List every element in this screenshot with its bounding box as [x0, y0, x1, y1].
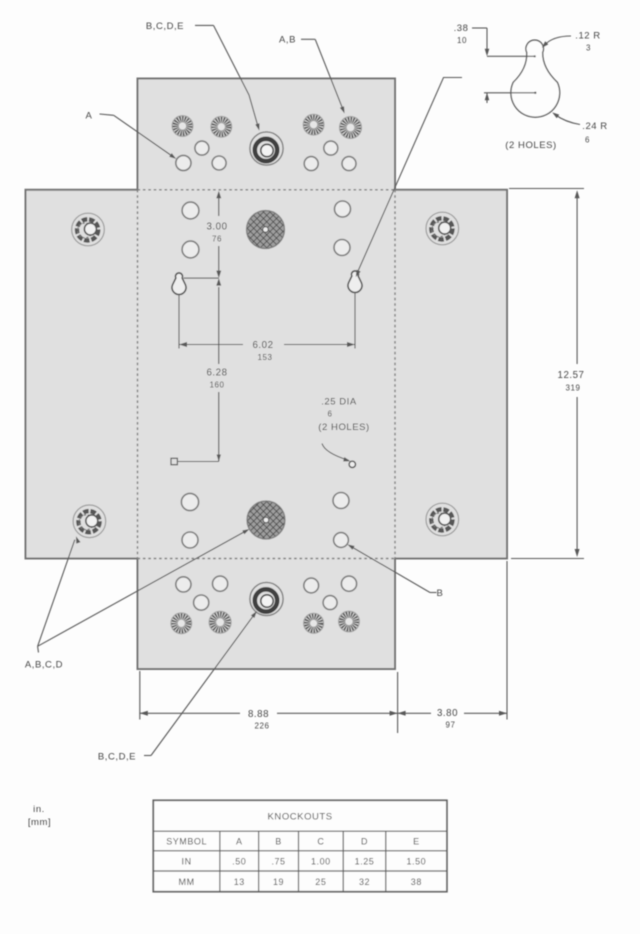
- .25 DIA small hole: [349, 461, 355, 467]
- table row line 3: [153, 870, 447, 872]
- big centre knockout top (B,C,D,E target): [250, 132, 283, 165]
- small hole bottom cluster 3: [194, 595, 209, 610]
- vertical plate visible outline: [138, 79, 396, 670]
- svg-text:97: 97: [446, 721, 456, 730]
- big centre knockout bottom (B,C,D,E target): [250, 582, 283, 615]
- svg-text:10: 10: [457, 36, 467, 45]
- small hole top cluster 6: [342, 157, 356, 171]
- hatched circle lower (A,B,C,D target): [247, 501, 285, 539]
- corner knockout bottom-left: [73, 505, 106, 538]
- svg-text:.12 R: .12 R: [575, 31, 600, 42]
- small hole bottom cluster 6: [323, 596, 337, 610]
- table row line 1: [153, 830, 447, 832]
- small hole top cluster 4: [324, 141, 338, 155]
- svg-text:D: D: [361, 837, 368, 847]
- small hole top cluster 1: [195, 141, 209, 155]
- svg-text:B: B: [275, 837, 282, 847]
- svg-text:8.88: 8.88: [248, 709, 269, 720]
- hidden edge: horizontal plate top behind vertical plate: [138, 189, 396, 191]
- datum square + line at bottom of 6.28: [171, 458, 177, 464]
- svg-text:(2 HOLES): (2 HOLES): [318, 422, 369, 433]
- 8.88 dimension bottom: [139, 671, 141, 720]
- small hole bottom cluster 1: [176, 577, 191, 592]
- knockouts table frame: [153, 800, 447, 891]
- horizontal plate body: [26, 190, 508, 559]
- svg-text:A,B: A,B: [279, 35, 296, 46]
- svg-text:C: C: [317, 837, 324, 847]
- svg-text:B: B: [437, 588, 444, 599]
- svg-text:A: A: [86, 111, 93, 122]
- svg-text:38: 38: [411, 877, 422, 887]
- .38 dimension of detail: [472, 27, 487, 29]
- connector keyhole to centre line: [184, 277, 219, 279]
- svg-text:1.00: 1.00: [311, 857, 331, 867]
- hex hole lower right 1: [333, 493, 349, 509]
- svg-text:6.02: 6.02: [252, 340, 273, 351]
- svg-text:.25 DIA: .25 DIA: [321, 397, 357, 408]
- knockout ring bottom row 3: [304, 613, 324, 633]
- knockout ring top row 2: [211, 116, 232, 137]
- hex hole upper right 1: [335, 201, 351, 217]
- svg-text:.38: .38: [454, 23, 469, 34]
- svg-text:319: 319: [566, 384, 581, 393]
- 12.57 dimension right side: [509, 188, 584, 190]
- svg-text:A: A: [236, 837, 243, 847]
- svg-text:.50: .50: [232, 857, 246, 867]
- svg-text:.75: .75: [271, 857, 285, 867]
- svg-text:13: 13: [234, 877, 245, 887]
- hidden edge: horizontal plate bottom behind vertical plate: [138, 558, 396, 560]
- small hole bottom cluster 2: [213, 576, 228, 591]
- table column line 5: [385, 831, 387, 892]
- knockout ring bottom row 2: [209, 611, 231, 633]
- leader to .25 hole: [322, 444, 349, 461]
- 3.80 dimension bottom right: [506, 561, 508, 720]
- 6.02 dimension between keyholes: [178, 295, 180, 349]
- knockout ring top row 3: [303, 114, 324, 135]
- svg-text:6: 6: [328, 410, 333, 419]
- svg-text:KNOCKOUTS: KNOCKOUTS: [268, 812, 333, 823]
- svg-text:E: E: [413, 837, 420, 847]
- svg-text:12.57: 12.57: [558, 370, 585, 381]
- svg-text:6: 6: [585, 136, 590, 145]
- svg-text:.24 R: .24 R: [582, 121, 607, 132]
- svg-text:3.00: 3.00: [206, 222, 227, 233]
- svg-text:19: 19: [273, 877, 284, 887]
- keyhole detail centre marks: [534, 92, 536, 94]
- svg-text:1.25: 1.25: [355, 857, 375, 867]
- svg-text:SYMBOL: SYMBOL: [166, 837, 207, 847]
- table column line 2: [258, 831, 260, 892]
- svg-text:B,C,D,E: B,C,D,E: [146, 21, 184, 32]
- small hole bottom cluster 4: [304, 578, 319, 593]
- svg-text:25: 25: [315, 877, 326, 887]
- hidden edge: vertical plate left inside horizontal plate: [137, 190, 139, 559]
- keyhole hole right: [348, 271, 362, 293]
- svg-text:(2 HOLES): (2 HOLES): [505, 140, 556, 151]
- hatched circle upper: [247, 211, 285, 249]
- keyhole hole left: [172, 273, 186, 295]
- small hole top cluster 2 (label A target): [176, 155, 191, 170]
- hidden edge: vertical plate right inside horizontal plate: [394, 190, 396, 559]
- knockout ring top row 1: [172, 116, 193, 137]
- svg-text:1.50: 1.50: [406, 857, 426, 867]
- knockout ring top row 4: [340, 117, 362, 139]
- knockout ring bottom row 4: [339, 611, 360, 632]
- svg-text:3: 3: [586, 44, 591, 53]
- keyhole detail outline: [511, 40, 560, 117]
- svg-text:226: 226: [255, 722, 270, 731]
- svg-text:3.80: 3.80: [437, 708, 458, 719]
- svg-text:76: 76: [212, 235, 222, 244]
- hex hole lower left 1: [181, 493, 198, 510]
- table column line 4: [342, 831, 344, 892]
- svg-text:B,C,D,E: B,C,D,E: [98, 752, 136, 763]
- hex hole upper right 2: [334, 240, 350, 256]
- hex hole upper left 1: [182, 202, 199, 219]
- corner knockout bottom-right: [426, 503, 459, 536]
- svg-text:32: 32: [359, 877, 370, 887]
- corner knockout top-right: [426, 212, 459, 245]
- vertical plate body: [138, 79, 396, 670]
- hex hole lower right 2 (label B target): [334, 533, 349, 548]
- svg-text:IN: IN: [182, 857, 192, 867]
- small hole bottom cluster 5: [341, 576, 356, 591]
- double arrow at keyhole row: [216, 271, 221, 279]
- horizontal plate visible outline: [26, 190, 508, 559]
- svg-text:160: 160: [210, 381, 225, 390]
- svg-text:153: 153: [258, 353, 273, 362]
- svg-text:MM: MM: [179, 877, 195, 887]
- svg-text:6.28: 6.28: [206, 368, 227, 379]
- small hole top cluster 5: [304, 157, 318, 171]
- knockout ring bottom row 1: [171, 613, 192, 634]
- corner knockout top-left: [72, 213, 105, 246]
- svg-text:A,B,C,D: A,B,C,D: [25, 660, 63, 671]
- svg-text:in.: in.: [33, 804, 45, 815]
- leader from detail to right keyhole hole: [357, 78, 463, 275]
- table column line 3: [298, 831, 300, 892]
- hex hole upper left 2: [182, 241, 199, 258]
- centre dimension line 3.00/6.28: [218, 194, 220, 217]
- small hole top cluster 3: [212, 156, 226, 170]
- hex hole lower left 2: [182, 532, 198, 548]
- table row line 2: [153, 850, 447, 852]
- svg-text:[mm]: [mm]: [28, 817, 51, 828]
- table column line 1: [219, 831, 221, 892]
